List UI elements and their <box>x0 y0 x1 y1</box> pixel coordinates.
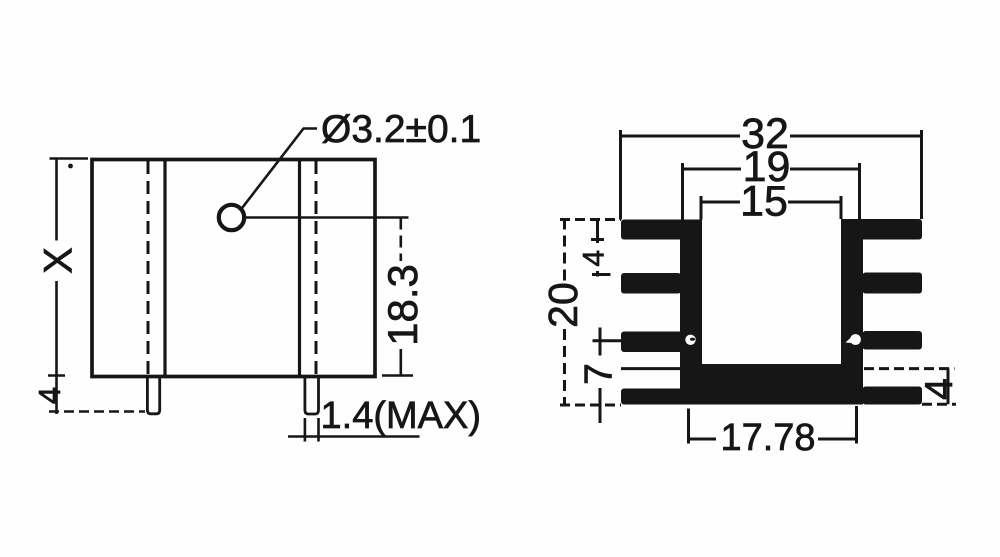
dimension 4 fin pitch line <box>591 221 611 277</box>
svg-text:4: 4 <box>32 387 67 404</box>
dimension 15 extension left <box>700 196 703 220</box>
dimension 19 extension left <box>681 163 684 220</box>
side view inner edge right <box>298 160 301 375</box>
right fin 1 <box>841 219 922 240</box>
dimension 4 extension (dashed) <box>49 410 145 413</box>
dimension 19 extension right <box>858 163 861 219</box>
dimension 1.4 ticks <box>305 418 319 442</box>
svg-text:7: 7 <box>578 363 621 385</box>
dimension 15 line <box>701 201 841 204</box>
svg-text:1.4(MAX): 1.4(MAX) <box>321 395 481 437</box>
left pin outline <box>147 376 159 414</box>
svg-text:15: 15 <box>740 178 788 226</box>
base top edge line <box>621 367 680 370</box>
dimension 32 extension right <box>920 130 923 219</box>
left wall hole thread mark <box>690 338 695 341</box>
svg-text:X: X <box>37 247 81 274</box>
side view body outline <box>92 160 375 377</box>
right wall hole <box>850 334 861 345</box>
dimension 15 extension right <box>840 196 843 219</box>
left wall <box>680 220 702 405</box>
dimension 4 base extension (dashed) <box>864 367 955 370</box>
heatsink cross-section solid <box>621 219 922 405</box>
dimension X line <box>55 159 58 376</box>
svg-text:20: 20 <box>540 282 586 328</box>
dimension 32 extension left <box>619 130 622 220</box>
dimension 17.78 line <box>689 438 857 441</box>
hole center horizontal line <box>245 216 409 219</box>
dimension 19 line <box>683 168 860 171</box>
dimension 20 extension top (dashed) <box>560 218 621 221</box>
dimension 17.78 extension right <box>855 406 858 444</box>
dimension X extension top <box>50 157 89 160</box>
left fin 2 <box>621 273 681 294</box>
dimension 20 extension bottom (dashed) <box>560 404 621 407</box>
right pin outline <box>305 376 319 414</box>
right wall hole notch <box>846 337 853 343</box>
dimension 4 base line <box>947 369 950 405</box>
left fin 3 <box>621 332 702 353</box>
right fin 3 <box>863 331 923 350</box>
svg-text:4: 4 <box>918 378 961 400</box>
dimension 1.4 line <box>288 435 420 438</box>
mounting hole circle <box>219 205 244 230</box>
dimension 4 pin length line <box>48 376 65 415</box>
svg-text:4: 4 <box>578 250 611 267</box>
dimension 18.3 line <box>399 218 402 262</box>
dimension 32 line <box>621 135 922 138</box>
right fin 2 <box>863 273 923 294</box>
center line right pin (dashed) <box>315 161 318 375</box>
left fin 1 <box>621 220 702 240</box>
right fin 4 <box>863 387 923 405</box>
base plate <box>680 364 863 405</box>
svg-text:18.3: 18.3 <box>379 264 426 346</box>
printed dot artifact <box>68 164 73 169</box>
left wall hole <box>685 335 695 345</box>
center line left pin (dashed) <box>147 161 150 375</box>
dimension 20 line <box>563 219 566 406</box>
left fin 4 <box>621 389 686 405</box>
dimension 17.78 extension left <box>687 409 690 444</box>
right wall <box>841 219 863 405</box>
hole leader line <box>241 129 318 211</box>
dimension 4 base bottom extension (dashed) <box>922 403 956 406</box>
side view inner edge left <box>163 160 166 375</box>
svg-text:17.78: 17.78 <box>720 417 815 459</box>
dimension 7 line <box>593 328 622 424</box>
svg-text:Ø3.2±0.1: Ø3.2±0.1 <box>321 108 481 151</box>
